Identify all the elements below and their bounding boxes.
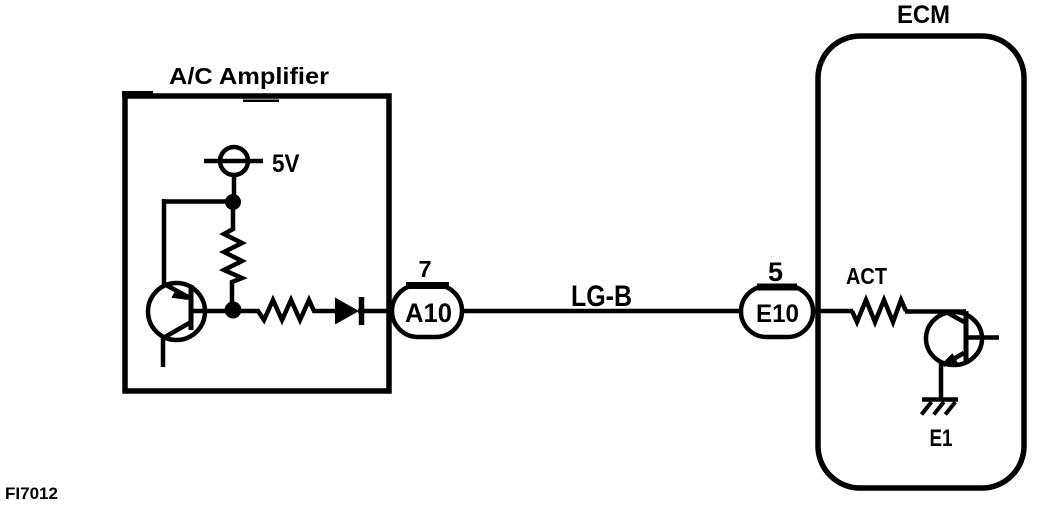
svg-text:7: 7 xyxy=(418,256,431,282)
svg-text:ACT: ACT xyxy=(846,263,888,289)
svg-text:FI7012: FI7012 xyxy=(5,484,58,503)
svg-text:A10: A10 xyxy=(405,298,452,328)
svg-text:ECM: ECM xyxy=(897,1,950,29)
svg-text:E1: E1 xyxy=(930,425,953,452)
svg-text:5: 5 xyxy=(768,257,783,287)
svg-text:A/C Amplifier: A/C Amplifier xyxy=(169,63,329,89)
svg-text:LG-B: LG-B xyxy=(571,280,632,313)
svg-text:E10: E10 xyxy=(756,300,799,328)
svg-text:5V: 5V xyxy=(272,150,300,178)
